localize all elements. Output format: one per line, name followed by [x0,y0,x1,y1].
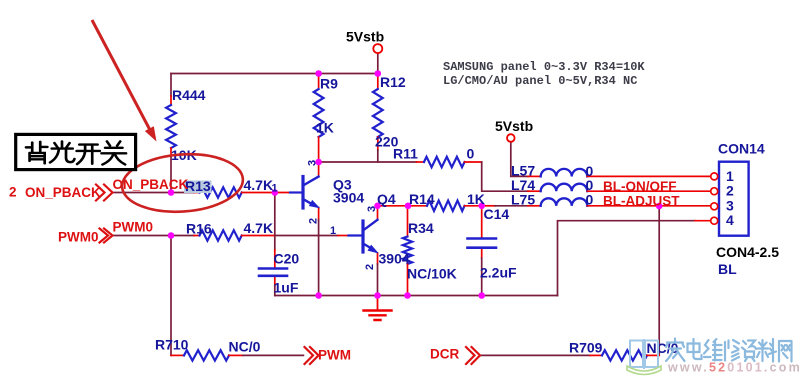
pin R14 left red stub from Q4 collector node [378,205,428,207]
ground symbol bars [364,311,392,321]
svg-text:1uF: 1uF [274,280,299,296]
power 5Vstb right drop wire [511,142,528,177]
svg-text:Q4: Q4 [377,191,396,207]
svg-text:5Vstb: 5Vstb [495,118,533,134]
svg-text:2.2uF: 2.2uF [480,265,517,281]
transistor Q3 base lead [290,191,303,193]
node ON_PBACK junction [168,189,175,196]
resistor R16 zigzag [200,230,242,240]
wire Q3 emitter to ground rail [318,220,320,296]
power terminal 5Vstb left circle [373,44,382,53]
pin R11 right red stub [465,161,482,163]
pin L75 red stub [528,205,541,207]
watermark book icon [630,339,658,369]
connector CON14 body [719,162,749,236]
wire R710 to PWM port [243,354,303,356]
hanzi 开 [77,145,100,151]
resistor R9 zigzag [314,89,324,137]
resistor R34 zigzag [403,237,412,265]
node R9 top rail junction [315,70,322,77]
wire ground rail [275,295,558,297]
svg-text:DCR: DCR [430,347,459,362]
node C14 top junction [478,203,485,210]
svg-text:3: 3 [307,160,319,166]
svg-text:1K: 1K [467,191,485,207]
pin R9 bottom red stub [318,137,320,162]
pin R34 top red stub [407,206,409,237]
svg-text:4.7K: 4.7K [244,177,274,193]
wire L74 to CON14 pin2 BL-ON/OFF [587,190,711,192]
resistor R14 zigzag [427,201,465,211]
connector CON14 pin4 circle [711,217,718,224]
port chevron DCR output [466,347,480,364]
svg-text:LG/CMO/AU panel 0~5V,R34 NC: LG/CMO/AU panel 0~5V,R34 NC [443,74,637,88]
resistor R12 zigzag [373,89,383,137]
svg-text:CON4-2.5: CON4-2.5 [716,244,779,260]
port chevron PWM0 [100,229,113,243]
wire R444 top lead [170,74,172,97]
svg-text:1: 1 [272,183,278,195]
wire 5Vstb terminal to rail [377,53,379,73]
node Q4 collector junction [374,203,381,210]
node R34 top junction [405,203,412,210]
pin R14 right red stub [465,205,482,207]
pin C14 bottom red stub [481,248,483,258]
watermark hanzi 家电维修资料网 [666,339,792,362]
svg-text:C20: C20 [274,251,300,267]
svg-text:R9: R9 [320,76,338,92]
svg-text:R34: R34 [408,220,434,236]
wire C20 bottom to ground rail [274,286,276,296]
pin L74 left red stub [528,190,541,192]
pin Q4 base red stub [338,235,349,237]
wire L75 to CON14 pin3 BL-ADJUST [587,205,711,207]
svg-text:3904: 3904 [379,251,410,267]
pin R34 bottom red stub to ground rail [407,264,409,296]
connector CON14 pin3 circle [711,203,718,210]
inductor L74 coil [541,184,588,191]
svg-text:4: 4 [726,212,734,228]
svg-text:3: 3 [366,206,378,212]
inductor L75 coil [541,198,588,205]
svg-text:5Vstb: 5Vstb [346,29,384,45]
pin R709 right red stub [647,354,659,356]
node PWM0 junction [168,232,175,239]
annotation red arrowhead [145,126,157,141]
pin C20 bottom red stub [274,276,276,286]
hanzi 网 [779,341,792,362]
pin C20 top red stub [274,250,276,268]
annotation red ellipse around ON_PBACK R13 [120,150,245,215]
resistor R11 zigzag [424,157,465,167]
wire R12 bottom to collector row [377,150,379,162]
pin Q4 collector red stub [377,206,379,220]
svg-text:R12: R12 [380,74,406,90]
hanzi 家 [666,339,684,348]
hanzi 资 [742,341,756,351]
svg-text:0: 0 [586,192,594,208]
wire ON_PBACK port to node [112,192,194,194]
pin R16 left red stub [194,235,200,237]
node ground symbol junction [374,292,381,299]
pin R12 top red stub [377,74,379,90]
annotation red arrow [92,20,150,130]
annotation box 背光开关 (backlight switch) [16,134,136,169]
transistor Q3 base bar [301,177,304,209]
inductor L57 coil [541,169,588,176]
wire BL-ADJUST node down to R709 [658,206,660,355]
pin Q3 base red stub [275,192,290,194]
svg-text:www.520101.com: www.520101.com [667,361,800,375]
pin R710 right red stub [229,354,243,356]
capacitor C20 plates [259,269,287,276]
svg-text:1K: 1K [316,120,334,136]
power terminal 5Vstb right circle [507,134,515,142]
transistor Q3 emitter arrowhead [310,201,319,208]
node R34 bottom junction [404,292,411,299]
node Q3 base / R13 junction [272,189,279,196]
pin R13 right red stub to node B [242,192,275,194]
wire DCR port to R709 [481,354,590,356]
port chevron ON_PBACK [96,185,113,201]
pin R11 left red stub [417,161,425,163]
resistor R444 zigzag [166,105,176,148]
pin CON14 pin4 red stub [695,220,711,222]
resistor R710 zigzag [184,350,229,360]
pin R709 left red stub [590,354,602,356]
svg-text:2: 2 [308,218,320,224]
hanzi 光 [52,141,73,148]
wire R11 down to L74 row [482,162,528,191]
pin Q3 collector red stub [318,162,320,177]
connector CON14 pin2 circle [711,188,718,195]
transistor Q4 collector lead [363,220,378,231]
wire C14 bottom to ground rail [481,258,483,296]
pin L57 left red stub [528,175,541,177]
svg-text:L75: L75 [511,192,535,208]
resistor R13 zigzag [200,187,242,197]
node Q3 emitter ground junction [315,292,322,299]
pin C14 top red stub [481,206,483,238]
pin L75 left red stub [482,205,495,207]
pin Q3 emitter red stub [318,208,320,221]
transistor Q3 collector lead [303,177,319,186]
node Q3 collector junction [315,159,322,166]
hanzi 维 [704,340,711,357]
wire ground rail up to CON14 pin4 [558,221,696,296]
wire PWM0 node down to R710 [170,236,172,356]
node BL-ADJUST R709 junction [656,203,663,210]
svg-text:PWM: PWM [318,348,351,363]
transistor Q3 emitter lead [303,199,314,205]
transistor Q4 base bar [361,221,364,252]
svg-text:R710: R710 [155,337,189,353]
hanzi 背 [26,142,47,152]
svg-text:0: 0 [467,146,475,162]
svg-text:PWM0: PWM0 [58,230,99,245]
pin R9 top red stub [318,74,320,90]
svg-text:NC/10K: NC/10K [407,266,457,282]
svg-text:BL-ADJUST: BL-ADJUST [603,194,680,209]
highlight box behind R13 [184,181,212,194]
pin R16 right red stub [242,235,275,237]
svg-text:ON_PBACK: ON_PBACK [25,185,101,200]
svg-text:1: 1 [330,225,336,237]
svg-text:CON14: CON14 [718,141,765,157]
wire to L75 [495,205,528,207]
svg-text:R709: R709 [569,340,603,356]
wire node B down toward C20 [274,193,276,251]
svg-text:R16: R16 [186,221,212,237]
capacitor C14 plates [468,239,497,248]
svg-text:SAMSUNG panel 0~3.3V R34=10K: SAMSUNG panel 0~3.3V R34=10K [443,60,645,74]
watermark book green base [627,366,661,375]
svg-text:NC/0: NC/0 [229,339,261,355]
resistor R709 zigzag [602,350,647,360]
svg-text:BL: BL [718,261,737,277]
hanzi 关 [102,141,126,153]
svg-text:R13: R13 [185,178,211,194]
transistor Q4 emitter arrowhead [368,246,377,253]
pin R444 bottom red stub [170,148,172,156]
pin Q4 emitter red stub [377,253,379,264]
svg-text:2: 2 [9,185,17,200]
pin R710 left red stub [171,354,184,356]
wire R16 to Q4 base [275,235,338,237]
svg-text:R14: R14 [409,191,435,207]
hanzi 电 [688,339,702,359]
pin R13 left red stub [194,192,200,194]
svg-text:BL-ON/OFF: BL-ON/OFF [603,179,677,194]
wire Q3 collector row [319,161,417,163]
transistor Q4 emitter lead [363,244,373,250]
node R12 top 5Vstb junction [375,70,382,77]
wire Q4 emitter to ground rail [377,264,379,296]
transistor Q4 base lead [349,234,364,236]
connector CON14 pin1 circle [711,173,718,180]
port chevron PWM output [305,347,319,364]
svg-text:R11: R11 [393,146,418,162]
pin R12 bottom red stub [377,137,379,150]
svg-text:2: 2 [364,264,376,270]
wire top rail 5Vstb to R444/R9/R12 [171,73,378,75]
wire L57 to CON14 pin1 [587,175,711,177]
svg-text:R444: R444 [172,87,206,103]
wire R444 bottom to ON_PBACK node [170,156,172,193]
svg-text:C14: C14 [484,206,510,222]
hanzi 修 [725,341,729,361]
ground symbol stem [377,296,379,310]
hanzi 料 [757,340,768,361]
node C14 bottom junction [478,292,485,299]
svg-text:4.7K: 4.7K [244,220,274,236]
pin R444 top red stub [170,96,172,105]
svg-text:2: 2 [726,183,734,199]
svg-text:3904: 3904 [333,190,364,206]
wire PWM0 port to node [112,235,194,237]
svg-text:PWM0: PWM0 [113,220,154,235]
